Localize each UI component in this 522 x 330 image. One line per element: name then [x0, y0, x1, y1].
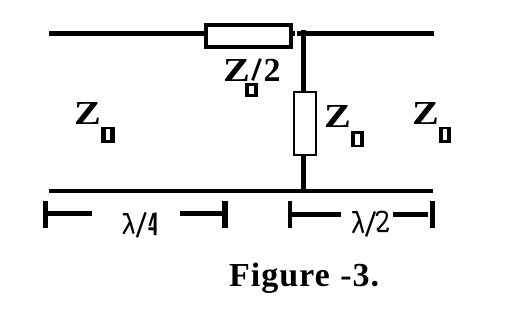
wire top transmission line	[49, 31, 434, 36]
label Z0 right line : subscript 0	[439, 127, 452, 143]
dimension lambda/2 : right segment	[393, 212, 428, 217]
label Z0 shunt stub : Z	[324, 105, 351, 128]
label Z0 shunt stub : subscript 0	[351, 131, 364, 147]
series element Z0/2 quarter-wave section box	[204, 23, 293, 49]
label Z0 right line : Z	[412, 102, 439, 125]
value label Z0/2 : subscript 0	[245, 83, 258, 97]
dimension lambda/4 : left segment	[47, 211, 92, 216]
wire bottom transmission line	[49, 189, 433, 193]
value label Z0/2 : Z	[223, 59, 250, 82]
dimension lambda/2 : left tick	[288, 201, 293, 229]
node A junction: vertical wire upper segment	[301, 30, 306, 92]
dimension label lambda/4	[118, 206, 160, 242]
dimension lambda/4 : right segment	[180, 211, 222, 217]
caption Figure -3.	[229, 264, 380, 287]
value label Z0/2 : 2	[264, 59, 281, 82]
label Z0 left line : Z	[74, 102, 101, 125]
dimension label lambda/2	[348, 205, 390, 241]
value label Z0/2 : slash	[251, 58, 261, 81]
dimension lambda/2 : right tick	[430, 201, 435, 228]
dimension lambda/4 : left tick	[43, 201, 48, 228]
wire vertical lower segment	[301, 156, 306, 193]
dimension lambda/2 : left segment	[292, 212, 341, 217]
white gap right of series element	[295, 30, 297, 37]
dimension lambda/4 : right tick	[222, 201, 228, 228]
shunt element Z0 half-wave stub box	[293, 91, 317, 156]
label Z0 left line : subscript 0	[101, 127, 115, 143]
